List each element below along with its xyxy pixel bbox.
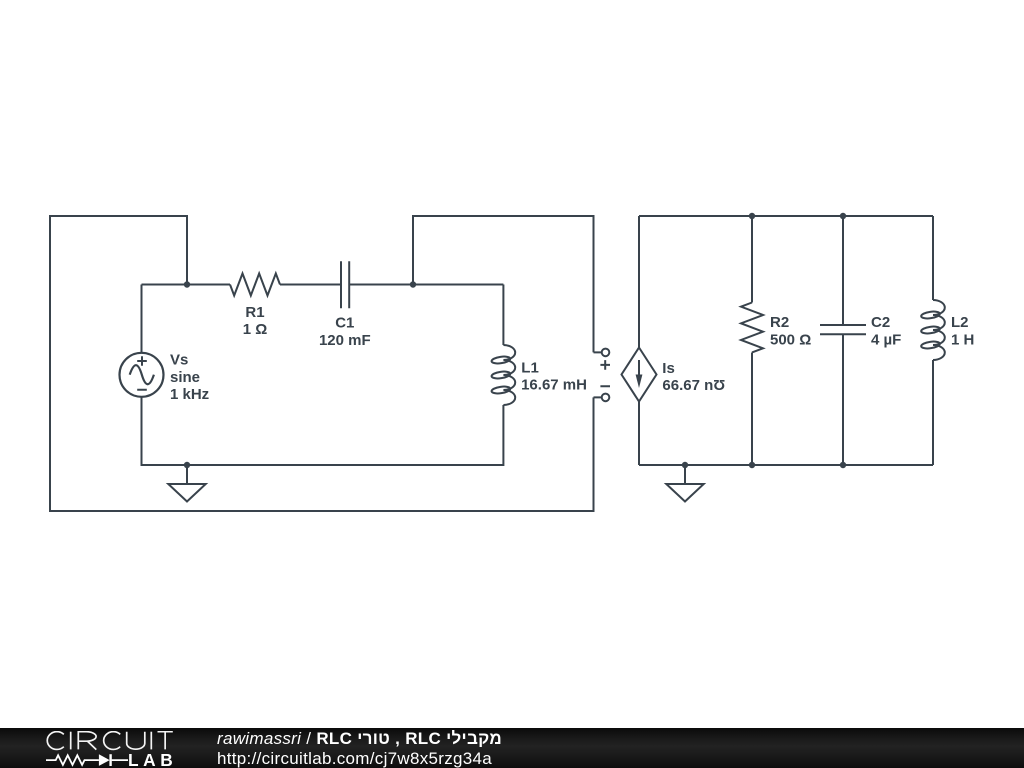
svg-text:16.67 mH: 16.67 mH bbox=[521, 377, 587, 394]
svg-text:66.67 nƱ: 66.67 nƱ bbox=[662, 377, 725, 394]
svg-text:Vs: Vs bbox=[170, 352, 188, 369]
svg-text:L2: L2 bbox=[951, 314, 969, 331]
svg-text:120 mF: 120 mF bbox=[319, 332, 371, 349]
svg-text:L1: L1 bbox=[521, 360, 539, 377]
svg-text:sine: sine bbox=[170, 369, 200, 386]
svg-text:C2: C2 bbox=[871, 314, 890, 331]
svg-text:LAB: LAB bbox=[128, 750, 176, 767]
svg-text:4 µF: 4 µF bbox=[871, 331, 901, 348]
svg-text:1 H: 1 H bbox=[951, 331, 974, 348]
svg-text:1 Ω: 1 Ω bbox=[243, 321, 268, 338]
svg-text:Is: Is bbox=[662, 360, 675, 377]
svg-text:R2: R2 bbox=[770, 314, 789, 331]
svg-text:R1: R1 bbox=[245, 304, 264, 321]
svg-text:1 kHz: 1 kHz bbox=[170, 386, 209, 403]
svg-text:C1: C1 bbox=[335, 315, 354, 332]
svg-text:500 Ω: 500 Ω bbox=[770, 331, 811, 348]
